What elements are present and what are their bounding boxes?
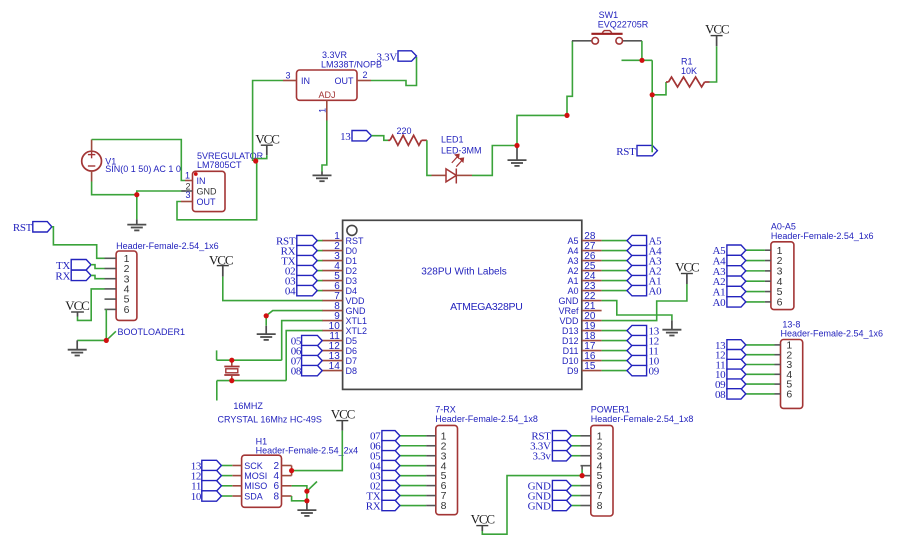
- label Header-Female-2.54_1x6 (A0-A5): [771, 231, 874, 241]
- bootloader pin number 2: [124, 263, 130, 275]
- flag 07 (pin 13): [302, 355, 323, 365]
- label LED-3MM: [441, 146, 482, 156]
- svg-text:BOOTLOADER1: BOOTLOADER1: [118, 327, 186, 337]
- wire R220 to LED anode: [427, 140, 432, 175]
- svg-text:VCC: VCC: [675, 259, 699, 274]
- A0-A5 pin 3 stub: [765, 270, 771, 272]
- svg-text:VCC: VCC: [65, 298, 89, 313]
- label A3 A0-A5 flag: [713, 266, 727, 278]
- pin name D7: [346, 356, 358, 366]
- 7-RX pin number 4: [441, 460, 447, 472]
- flag 11 (pin 17): [627, 345, 647, 355]
- H1 pin4 stub right: [282, 475, 292, 477]
- pin number 2: [185, 181, 190, 191]
- VCC symbol bootloader: [71, 312, 84, 317]
- flag RX (pin 2): [297, 245, 317, 255]
- svg-text:6: 6: [124, 304, 130, 316]
- svg-text:SCK: SCK: [244, 461, 263, 471]
- label GND POWER1 flag: [528, 500, 551, 512]
- wire node down to RST flag: [651, 95, 653, 153]
- label A2 A0-A5 flag: [713, 276, 726, 288]
- header H1 box: [242, 455, 282, 507]
- H1 name SDA: [244, 491, 263, 501]
- ground for V1: [127, 219, 146, 230]
- svg-text:MOSI: MOSI: [244, 471, 267, 481]
- pin name OUT: [197, 197, 217, 207]
- label 13-8: [782, 319, 800, 329]
- flag 09 (13-8): [727, 379, 746, 389]
- pin name VRef: [558, 306, 579, 316]
- label 5VREGULATOR: [197, 151, 264, 161]
- pin number 24: [584, 271, 596, 282]
- label 06 7-RX flag: [370, 441, 381, 453]
- label 03 7-RX flag: [370, 471, 381, 483]
- 13-8 pin number 5: [786, 379, 792, 391]
- pin name D9: [567, 366, 579, 376]
- label RX 7-RX flag: [366, 500, 381, 512]
- wire V1- to regulator GND: [92, 182, 186, 195]
- wire pin 17 to flag 11: [602, 350, 627, 352]
- header POWER1 box: [591, 425, 613, 516]
- pin 22 (GND) stub: [582, 300, 602, 302]
- flag 13 (H1): [202, 460, 222, 470]
- pin stub ADJ (1): [326, 100, 328, 120]
- wire 13 flag to R220: [372, 136, 389, 141]
- label 3.3V POWER1 flag: [530, 441, 551, 453]
- wire flag 11 to 13-8 pin 3: [746, 364, 775, 366]
- VCC symbol top right: [711, 36, 723, 47]
- A0-A5 pin 1 stub: [765, 249, 771, 251]
- label 13 13-8 flag: [715, 340, 726, 352]
- POWER1 pin number 3: [597, 450, 603, 462]
- label 03 flag: [285, 276, 296, 288]
- pin name A1: [567, 276, 578, 286]
- pin 1 (RST) stub: [322, 240, 343, 242]
- POWER1 pin number 7: [597, 490, 603, 502]
- svg-text:D12: D12: [562, 336, 579, 346]
- label VCC (H1 net): [331, 406, 355, 421]
- label 02 flag: [285, 266, 295, 278]
- svg-text:VCC: VCC: [471, 511, 495, 526]
- svg-text:14: 14: [329, 361, 341, 372]
- 13-8 pin 4 stub: [775, 373, 781, 375]
- pin stub OUT: [181, 201, 193, 203]
- svg-text:XTL2: XTL2: [346, 326, 368, 336]
- H1 number 6: [273, 481, 279, 492]
- pin name D10: [562, 356, 579, 366]
- pin name D13: [562, 326, 579, 336]
- label 11 H1 flag: [191, 481, 201, 493]
- bootloader pin number 3: [124, 273, 130, 285]
- svg-text:GND: GND: [559, 296, 580, 306]
- label 04 flag: [285, 286, 296, 298]
- ground for LED node: [508, 147, 527, 166]
- 7-RX pin 4 stub: [426, 465, 436, 467]
- pin name D11: [563, 346, 579, 356]
- A0-A5 pin 4 stub: [765, 280, 771, 282]
- label 16MHZ: [233, 401, 263, 411]
- pin number 21: [584, 301, 596, 312]
- pin 14 (D8) stub: [322, 370, 343, 372]
- svg-text:XTL1: XTL1: [346, 316, 368, 326]
- wire TX to pin2: [91, 265, 105, 269]
- junction crystal top: [229, 358, 234, 363]
- bootloader pin 6 stub: [105, 308, 117, 310]
- wire junction to ground: [77, 339, 106, 341]
- svg-text:A3: A3: [567, 256, 578, 266]
- 13-8 pin 5 stub: [775, 383, 781, 385]
- wire pin8 to gnd node: [292, 496, 307, 501]
- POWER1 pin 6 stub: [581, 485, 591, 487]
- wire crystal top rail: [217, 350, 282, 360]
- wire junction down: [651, 60, 653, 95]
- junction GND bend: [264, 313, 269, 318]
- POWER1 pin 1 stub: [581, 435, 591, 437]
- wire stub left at junction: [622, 59, 653, 61]
- pin name A3: [567, 256, 578, 266]
- label 328PU With Labels: [421, 267, 507, 278]
- label TX 7-RX flag: [366, 490, 380, 502]
- H1 pin6 stub right: [282, 485, 292, 487]
- label A5 right flag: [649, 236, 663, 248]
- junction below switch: [639, 58, 644, 63]
- H1 left stub row 4: [232, 495, 241, 497]
- H1 left stub row 3: [232, 485, 241, 487]
- flag 03 (pin 5): [297, 275, 317, 285]
- pin stub IN (3): [283, 80, 297, 82]
- wire pin 15 to flag 09: [602, 370, 627, 372]
- wire flag A1 to A0-A5 pin 5: [746, 291, 765, 293]
- pin-1 marker dot: [194, 172, 198, 176]
- label 13: [340, 131, 351, 143]
- svg-text:A2: A2: [567, 266, 578, 276]
- wire VCC to pin4: [78, 289, 105, 321]
- label 10 13-8 flag: [715, 369, 726, 381]
- VCC symbol near regulators: [256, 145, 273, 161]
- label A5 A0-A5 flag: [713, 245, 727, 257]
- pin number 11: [329, 331, 340, 342]
- flag 04 (pin 6): [297, 285, 317, 295]
- pin 8 (GND) stub: [322, 310, 343, 312]
- svg-text:328PU With Labels: 328PU With Labels: [421, 267, 507, 278]
- wire pin 26 to flag A3: [602, 260, 627, 262]
- label 3.3v POWER1 flag: [533, 451, 552, 463]
- svg-text:OUT: OUT: [335, 76, 355, 86]
- A0-A5 pin number 6: [777, 297, 783, 309]
- wire diagonal stub: [106, 331, 116, 340]
- pin 7 (VDD) stub: [322, 300, 343, 302]
- pin 17 (D11) stub: [582, 350, 602, 352]
- label VCC (VDD pin7): [209, 252, 233, 267]
- label GND POWER1 flag: [528, 490, 551, 502]
- svg-text:A0: A0: [713, 297, 727, 309]
- 7-RX pin number 5: [441, 470, 447, 482]
- wire flag A0 to A0-A5 pin 6: [746, 301, 765, 303]
- pin name OUT: [335, 76, 355, 86]
- label 07 flag: [291, 356, 302, 368]
- label ATMEGA328PU: [450, 301, 522, 313]
- label 3.3VR: [322, 50, 348, 60]
- pin name D8: [346, 366, 358, 376]
- pin 27 (A4) stub: [582, 250, 602, 252]
- svg-text:MISO: MISO: [244, 481, 267, 491]
- svg-text:3: 3: [185, 190, 190, 200]
- label TX: [56, 260, 70, 272]
- flag TX (bootloader): [71, 260, 91, 270]
- svg-text:RST: RST: [346, 236, 365, 246]
- bootloader pin 1 stub: [105, 257, 117, 259]
- svg-text:D4: D4: [346, 286, 358, 296]
- POWER1 pin number 2: [597, 440, 603, 452]
- 7-RX pin 1 stub: [426, 435, 436, 437]
- pin name GND: [346, 306, 367, 316]
- wire flag RST to pin 1: [317, 240, 323, 242]
- flag 3.3v (POWER1 pin 3): [552, 451, 571, 461]
- wire flag A3 to A0-A5 pin 3: [746, 270, 765, 272]
- POWER1 pin 4 stub: [581, 465, 591, 467]
- label 13 H1 flag: [191, 460, 202, 472]
- label 12 right flag: [649, 336, 659, 348]
- wire flag TX to pin 3: [317, 260, 323, 262]
- wire pin20 VDD to VCC: [602, 284, 687, 321]
- bootloader pin 2 stub: [105, 268, 117, 270]
- wire flag 07 to 7-RX pin 1: [400, 435, 427, 437]
- svg-text:RST: RST: [13, 222, 33, 234]
- A0-A5 pin 2 stub: [765, 260, 771, 262]
- pin number 8: [334, 301, 340, 312]
- 13-8 pin number 4: [786, 369, 792, 381]
- svg-text:1: 1: [318, 108, 328, 113]
- 13-8 pin 3 stub: [775, 364, 781, 366]
- flag 11 (13-8): [727, 359, 746, 369]
- flag 08 (13-8): [727, 389, 746, 399]
- voltage source V1: [82, 140, 102, 182]
- pin name D4: [346, 286, 358, 296]
- label Header-Female-2.54_1x6 (bootloader): [116, 241, 219, 251]
- svg-text:VDD: VDD: [346, 296, 366, 306]
- pin 11 (D5) stub: [322, 340, 343, 342]
- wire H1 gnd tie: [306, 491, 308, 501]
- 13-8 pin number 3: [786, 359, 792, 371]
- pin number 16: [584, 351, 596, 362]
- wire pin 27 to flag A4: [602, 250, 627, 252]
- svg-text:8: 8: [597, 500, 603, 512]
- ground for ADJ: [313, 172, 332, 182]
- label 11 13-8 flag: [715, 359, 725, 371]
- wire RX to pin3: [91, 275, 105, 278]
- pin name XTL2: [346, 326, 368, 336]
- wire pin 19 to flag 13: [602, 330, 627, 332]
- svg-text:3.3v: 3.3v: [533, 451, 552, 463]
- flag 3.3V: [398, 51, 417, 61]
- svg-text:D10: D10: [562, 356, 579, 366]
- pin name D1: [346, 256, 358, 266]
- value SIN(0 1 50) AC 1 0: [105, 164, 181, 174]
- wire flag TX to 7-RX pin 7: [400, 495, 427, 497]
- wire RST flag to bootloader pin1: [52, 227, 105, 258]
- A0-A5 pin number 5: [777, 286, 783, 298]
- junction RST/R1 node: [650, 92, 655, 97]
- wire pin 28 to flag A5: [602, 240, 627, 242]
- A0-A5 pin number 4: [777, 276, 783, 288]
- H1 pin2 stub right: [282, 465, 292, 467]
- label LED1: [441, 135, 464, 145]
- label VCC bottom: [471, 511, 495, 526]
- pin name IN: [197, 176, 206, 186]
- flag A5 (A0-A5): [727, 245, 746, 255]
- svg-text:LED-3MM: LED-3MM: [441, 146, 482, 156]
- pin name D2: [346, 266, 358, 276]
- wire switch to junction: [641, 41, 643, 60]
- 7-RX pin 5 stub: [426, 475, 436, 477]
- pin stub GND: [181, 190, 192, 192]
- wire flag 3.3v to POWER1 pin 3: [571, 455, 581, 457]
- pin number 20: [584, 311, 596, 322]
- svg-text:VCC: VCC: [705, 21, 729, 36]
- wire flag GND to POWER1 pin 7: [571, 495, 581, 497]
- A0-A5 pin 6 stub: [765, 301, 771, 303]
- pin 9 (XTL1) stub: [322, 320, 343, 322]
- switch SW1: [572, 31, 642, 44]
- wire flag 05 to 7-RX pin 3: [400, 455, 427, 457]
- svg-text:D6: D6: [346, 346, 358, 356]
- pin name ADJ: [319, 90, 336, 100]
- flag A0 (pin 23): [627, 285, 647, 295]
- label A0 right flag: [649, 286, 663, 298]
- flag GND (POWER1 pin 8): [552, 500, 571, 510]
- svg-text:CRYSTAL 16Mhz HC-49S: CRYSTAL 16Mhz HC-49S: [218, 414, 322, 424]
- label V1: [105, 156, 116, 166]
- svg-text:3.3VR: 3.3VR: [322, 50, 348, 60]
- svg-text:08: 08: [291, 366, 302, 378]
- H1 name SCK: [244, 461, 263, 471]
- label 11 right flag: [649, 346, 659, 358]
- pin 25 (A2) stub: [582, 270, 602, 272]
- pin 4 (D2) stub: [322, 270, 343, 272]
- label Header-Female-2.54_1x6 (13-8): [781, 328, 884, 338]
- label TX flag: [281, 256, 295, 268]
- wire pin 24 to flag A1: [602, 280, 627, 282]
- pin number 1 rotated: [318, 108, 328, 113]
- bootloader pin number 1: [124, 253, 130, 265]
- junction VCC node: [253, 158, 258, 163]
- pin number 7: [334, 291, 340, 302]
- POWER1 pin number 8: [597, 500, 603, 512]
- pin number 14: [329, 361, 341, 372]
- label RST top-left: [13, 222, 33, 234]
- label RST POWER1 flag: [531, 431, 551, 443]
- VCC symbol right: [681, 274, 693, 285]
- wire pin 16 to flag 10: [602, 360, 627, 362]
- svg-text:3: 3: [285, 70, 290, 80]
- wire LED cathode to gnd node: [472, 146, 517, 176]
- wire node to R1: [652, 82, 666, 95]
- flag A1 (pin 24): [627, 275, 647, 285]
- svg-text:OUT: OUT: [197, 197, 217, 207]
- wire 7805 OUT to VCC node: [177, 161, 257, 220]
- svg-text:LM338T/NOPB: LM338T/NOPB: [321, 60, 382, 70]
- H1 number 2: [273, 461, 279, 472]
- pin number 12: [329, 341, 341, 352]
- flag A1 (A0-A5): [727, 286, 746, 296]
- flag 06 (pin 12): [302, 345, 323, 355]
- label Header-Female-2.54_2x4: [256, 445, 359, 455]
- bootloader pin 5 stub: [105, 298, 117, 300]
- label A0 A0-A5 flag: [713, 297, 727, 309]
- svg-text:D13: D13: [562, 326, 579, 336]
- bootloader pin number 5: [124, 294, 130, 306]
- flag 11 (H1): [202, 481, 222, 491]
- pin number 9: [334, 311, 340, 322]
- pin 12 (D6) stub: [322, 350, 343, 352]
- pin name A4: [567, 246, 578, 256]
- flag 02 (7-RX): [382, 480, 400, 490]
- pin number 19: [584, 321, 596, 332]
- label CRYSTAL 16Mhz HC-49S: [218, 414, 322, 424]
- label RX flag: [281, 246, 296, 258]
- 13-8 pin 6 stub: [775, 393, 781, 395]
- wire flag 03 to 7-RX pin 5: [400, 475, 427, 477]
- POWER1 pin number 1: [597, 430, 603, 442]
- crystal 16MHZ: [224, 360, 239, 380]
- wire H1 to VCC: [292, 431, 343, 471]
- POWER1 pin 8 stub: [581, 505, 591, 507]
- label A4 right flag: [649, 246, 663, 258]
- wire flag A4 to A0-A5 pin 2: [746, 260, 765, 262]
- label 09 13-8 flag: [715, 379, 726, 391]
- pin 28 (A5) stub: [582, 240, 602, 242]
- pin 21 (VRef) stub: [582, 310, 602, 312]
- label 10 right flag: [649, 356, 660, 368]
- 7-RX pin number 6: [441, 480, 447, 492]
- pin name D3: [346, 276, 358, 286]
- pin name XTL1: [346, 316, 368, 326]
- pin 10 (XTL2) stub: [322, 330, 343, 332]
- pin number 1: [334, 231, 340, 242]
- pin 5 (D3) stub: [322, 280, 343, 282]
- flag 10 (pin 16): [627, 355, 647, 365]
- junction bootloader ground: [104, 338, 109, 343]
- label 7-RX: [435, 405, 456, 415]
- pin number 28: [584, 231, 596, 242]
- bootloader pin 3 stub: [105, 278, 117, 280]
- wire flag 02 to 7-RX pin 6: [400, 485, 427, 487]
- header 13-8 box: [781, 340, 803, 409]
- pin number 3: [285, 70, 290, 80]
- svg-text:1: 1: [185, 170, 190, 180]
- 13-8 pin 1 stub: [775, 344, 781, 346]
- label A1 right flag: [649, 276, 662, 288]
- wire OUT to 3.3V flag: [371, 57, 417, 86]
- svg-text:D8: D8: [346, 366, 358, 376]
- junction H1 VCC node: [289, 468, 294, 473]
- label 220: [397, 126, 412, 136]
- pin number 3: [185, 190, 190, 200]
- label A0-A5: [771, 222, 796, 232]
- wire gnd node up to switch net: [517, 115, 567, 145]
- pin name D0: [346, 246, 358, 256]
- svg-text:GND: GND: [528, 500, 551, 512]
- regulator 3.3VR box: [297, 70, 358, 100]
- wire flag 04 to pin 6: [317, 290, 323, 292]
- POWER1 pin 3 stub: [581, 455, 591, 457]
- wire pin 18 to flag 12: [602, 340, 627, 342]
- label Header-Female-2.54_1x8 (POWER1): [591, 414, 694, 424]
- label RX: [55, 271, 70, 283]
- POWER1 pin4 bend: [581, 466, 583, 476]
- svg-text:D5: D5: [346, 336, 358, 346]
- H1 pin8 stub right: [282, 495, 292, 497]
